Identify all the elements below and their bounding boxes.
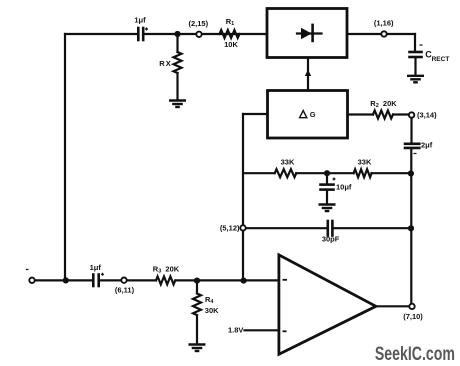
svg-text:33K: 33K	[358, 157, 372, 166]
svg-text:10K: 10K	[224, 40, 238, 49]
svg-text:SeekIC.com: SeekIC.com	[375, 344, 455, 365]
svg-text:(6,11): (6,11)	[115, 285, 135, 294]
svg-text:(1,16): (1,16)	[374, 19, 394, 28]
svg-text:G: G	[310, 110, 316, 119]
svg-text:30K: 30K	[205, 306, 219, 315]
svg-text:2μf: 2μf	[421, 141, 433, 150]
svg-text:1μf: 1μf	[90, 263, 102, 272]
svg-text:1μf: 1μf	[134, 15, 146, 24]
svg-text:R3 20K: R3 20K	[153, 264, 180, 274]
svg-text:(2,15): (2,15)	[189, 19, 209, 28]
svg-text:30pF: 30pF	[322, 235, 340, 244]
svg-text:(5,12): (5,12)	[220, 224, 240, 233]
svg-text:RECT: RECT	[432, 56, 450, 63]
svg-text:1.8V: 1.8V	[228, 326, 243, 335]
svg-text:(7,10): (7,10)	[403, 312, 423, 321]
svg-text:(3,14): (3,14)	[417, 111, 437, 120]
svg-text:10μf: 10μf	[336, 183, 352, 192]
svg-text:RX: RX	[159, 59, 171, 68]
svg-text:33K: 33K	[281, 157, 295, 166]
svg-text:R2 20K: R2 20K	[370, 99, 397, 109]
